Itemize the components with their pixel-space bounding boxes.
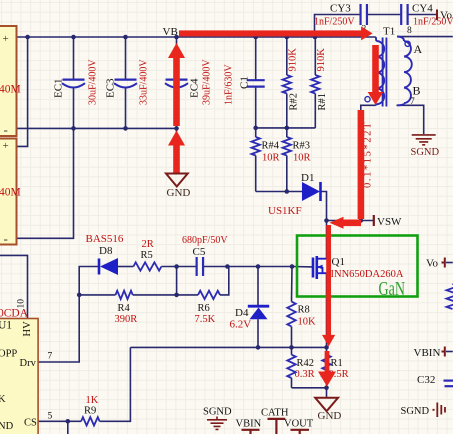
U1 pin HV name (22, 321, 33, 337)
wire Q1 source (326, 273, 328, 347)
svg-text:R9: R9 (84, 406, 96, 417)
U1 pin ND name (0, 421, 14, 432)
svg-text:VBIN: VBIN (414, 347, 441, 359)
svg-text:2R: 2R (142, 239, 154, 250)
svg-text:R#1: R#1 (317, 93, 328, 111)
bulk component box1 40M (0, 26, 21, 137)
resistor R1 0.5R (322, 355, 348, 380)
svg-text:D8: D8 (99, 245, 113, 257)
wire CS stub down (67, 421, 69, 434)
wire EC1 leads (73, 37, 75, 128)
wire EC4 leads (176, 37, 178, 128)
svg-text:39uF/400V: 39uF/400V (202, 59, 213, 105)
svg-text:1nF/250V: 1nF/250V (314, 17, 355, 28)
U1 part number text (0, 308, 29, 320)
svg-text:0.3R: 0.3R (295, 369, 315, 380)
resistor R5 2R (133, 239, 161, 271)
junction (315,37) (313, 35, 318, 40)
junction (176.6,294.9) (174, 293, 179, 298)
junction (326.5,387.8) (324, 386, 329, 391)
svg-text:R#3: R#3 (293, 141, 311, 152)
junction (176.5,37) (174, 35, 179, 40)
svg-text:ND: ND (0, 421, 14, 432)
wire GND stub right (326, 388, 328, 398)
junction (258,347.4) (256, 345, 261, 350)
svg-text:-: - (4, 122, 8, 137)
wire T1 pin4 down to VSW (361, 105, 376, 220)
wire R5C5 riser (176, 267, 178, 295)
resistor right edge partial (447, 284, 453, 309)
svg-text:T1: T1 (383, 26, 395, 38)
svg-text:1nF/630V: 1nF/630V (224, 64, 235, 105)
resistor R4 390R (115, 291, 138, 325)
svg-text:GND: GND (167, 187, 191, 199)
resistor R6 7.5K (195, 291, 221, 325)
junction (125.5,128.4) (123, 126, 128, 131)
svg-text:K: K (0, 394, 6, 405)
svg-text:VB: VB (163, 26, 178, 38)
junction (326.5,220.5) (324, 218, 329, 223)
wire R#1 leads (314, 37, 316, 128)
svg-text:SGND: SGND (401, 406, 430, 417)
wire D8 left column (79, 267, 99, 295)
wire D4 top lead (257, 267, 259, 306)
capacitor CY3 (314, 3, 367, 28)
svg-text:R6: R6 (198, 303, 210, 314)
svg-text:HV: HV (22, 321, 33, 337)
svg-text:680pF/50V: 680pF/50V (182, 235, 228, 246)
svg-text:US1KF: US1KF (268, 205, 302, 217)
transformer T1 (365, 26, 412, 107)
wire CY3-CY4 (368, 14, 400, 16)
wire R1 leads (326, 347, 328, 387)
junction (291.5,347.4) (289, 345, 294, 350)
red arrow down through R1 (318, 351, 336, 387)
wire VBIN stub right (446, 351, 453, 353)
U1 pin 5 number (48, 412, 53, 422)
wire D4 bottom lead (257, 319, 259, 347)
resistor R#3 10R (283, 137, 311, 164)
junction (27.6,37) (25, 35, 30, 40)
ground GND left (166, 174, 190, 200)
resistor R#4 10R (252, 137, 280, 164)
net port VSW (374, 215, 402, 228)
ground GND right (315, 398, 341, 422)
resistor R8 10K (287, 302, 316, 328)
wire R9 loop (38, 347, 130, 421)
svg-text:SGND: SGND (203, 407, 232, 418)
svg-text:OPP: OPP (0, 348, 17, 359)
svg-text:5: 5 (48, 412, 53, 422)
svg-text:BAS516: BAS516 (86, 233, 124, 245)
T1 pin 7 number (410, 97, 415, 107)
svg-text:-: - (4, 231, 8, 246)
resistor R#2 910K (283, 48, 300, 111)
svg-text:CY4: CY4 (412, 3, 433, 15)
net port Vo right (426, 258, 445, 270)
wire gate row (118, 266, 313, 268)
svg-text:910K: 910K (288, 48, 299, 72)
wire R#2 leads (286, 37, 288, 128)
svg-text:+: + (3, 140, 9, 152)
power port VOUT bottom (284, 419, 314, 434)
power port VBIN bottom (236, 419, 262, 434)
red arrow up to VB (168, 43, 185, 126)
red arrow along bus to T1 (179, 26, 373, 40)
net label VB (163, 26, 178, 38)
svg-text:390R: 390R (115, 314, 138, 325)
junction (255.7,37) (253, 35, 258, 40)
svg-text:D1: D1 (301, 172, 314, 184)
bulk component box2 40M (0, 139, 21, 247)
capacitor CY4 (401, 3, 453, 28)
junction (360.8,220.5) (359, 218, 364, 223)
svg-text:GaN: GaN (379, 278, 406, 300)
wire rail4 (130, 346, 326, 348)
svg-text:Vo: Vo (440, 10, 453, 22)
wire box2 plus to bus (16, 37, 28, 146)
zener diode D4 6.2V (230, 306, 270, 330)
svg-text:U1: U1 (0, 320, 12, 332)
net port VBIN right (414, 347, 445, 360)
svg-text:1K: 1K (86, 395, 99, 406)
svg-text:7.5K: 7.5K (195, 314, 216, 325)
svg-text:SGND: SGND (411, 147, 440, 158)
U1 pin K name (0, 394, 6, 405)
net port Vo top (437, 10, 453, 22)
resistor R9 1K (81, 395, 100, 426)
wire D1 cathode to VSW node (321, 192, 327, 221)
wire rail5 (292, 387, 327, 389)
wire bottom left rail (16, 127, 177, 129)
red arrow down to VSW turn (330, 110, 365, 229)
wire R8 leads (291, 267, 294, 348)
net port SGND right (401, 403, 446, 418)
junction (286.8,127.9) (285, 126, 290, 131)
svg-text:Q1: Q1 (332, 256, 345, 268)
junction (79.2,294.9) (77, 293, 82, 298)
svg-text:C5: C5 (193, 246, 206, 258)
svg-text:CY3: CY3 (330, 3, 351, 15)
wire box2 minus to rail (16, 128, 74, 238)
T1 pin 8 number (407, 26, 412, 36)
svg-text:R#4: R#4 (262, 141, 280, 152)
junction (176.6,266.5) (174, 264, 179, 269)
wire VSW rail (327, 220, 375, 222)
svg-text:40M: 40M (0, 187, 21, 199)
red arrow down through Q1 (322, 225, 335, 347)
T1 winding value 0.1*15*22T (363, 121, 374, 188)
svg-text:INN650DA260A: INN650DA260A (331, 269, 404, 280)
svg-text:10K: 10K (298, 317, 317, 328)
svg-text:B: B (413, 84, 421, 98)
svg-text:C1: C1 (239, 76, 251, 89)
svg-text:7: 7 (48, 352, 53, 362)
wire EC3 leads (125, 37, 127, 128)
svg-text:910K: 910K (316, 48, 327, 72)
T1 pin 3 number (362, 25, 367, 35)
transistor Q1 INN650DA260A (313, 256, 404, 280)
op-amp U1 controller box (0, 319, 38, 434)
U1 designator (0, 320, 12, 332)
svg-text:R42: R42 (297, 358, 315, 369)
wire GND stub left (176, 128, 178, 173)
junction (73.5,37) (71, 35, 76, 40)
junction (326.5,347.4) (324, 345, 329, 350)
junction (125.5,37) (123, 35, 128, 40)
wire T1 pin8 (397, 36, 453, 38)
junction (255.7,127.9) (253, 126, 258, 131)
junction (292,266.5) (290, 264, 295, 269)
svg-text:10R: 10R (262, 153, 280, 164)
diode D8 BAS516 (86, 233, 124, 275)
svg-text:33uF/400V: 33uF/400V (139, 59, 150, 105)
diode D1 US1KF (268, 172, 321, 217)
svg-text:C32: C32 (417, 374, 435, 386)
svg-text:Drv: Drv (20, 358, 37, 369)
U1 pin 7 number (48, 352, 53, 362)
svg-text:EC1: EC1 (53, 78, 65, 98)
capacitor C5 (182, 235, 228, 276)
capacitor C32 (417, 374, 453, 386)
svg-text:+: + (3, 33, 9, 45)
wire Q1 drain (326, 221, 328, 259)
junction (176.5,128.4) (174, 126, 179, 131)
svg-text:6.2V: 6.2V (230, 319, 252, 331)
wire R42 leads (291, 347, 293, 387)
junction (286.8,191.5) (285, 189, 290, 194)
svg-text:R5: R5 (141, 250, 153, 261)
wire Vo stub right (446, 262, 453, 264)
capacitor C1 (224, 64, 265, 105)
svg-text:VOUT: VOUT (284, 419, 314, 430)
svg-text:10R: 10R (293, 153, 311, 164)
wire R#4 leads (255, 128, 257, 192)
wire D8 col to Drv (38, 295, 79, 362)
power port CATH bottom (261, 408, 289, 434)
svg-text:R4: R4 (118, 303, 131, 314)
wire HV lead (0, 255, 28, 318)
junction (227.4,266.5) (225, 264, 230, 269)
svg-text:Vo: Vo (426, 258, 439, 270)
ground SGND under T1 (411, 135, 440, 158)
wire T1 pin7 to SGND (397, 105, 424, 134)
wire rail to D1 anode (256, 191, 302, 193)
capacitor EC1 (53, 59, 99, 105)
svg-text:40M: 40M (0, 84, 21, 96)
wire R#3 leads (286, 128, 288, 192)
wire rail C1-R#1 (256, 127, 316, 129)
wire top VB bus (16, 36, 376, 38)
svg-text:8: 8 (407, 26, 412, 36)
svg-text:GND: GND (318, 410, 342, 422)
svg-text:EC4: EC4 (189, 78, 201, 98)
svg-text:R1: R1 (331, 358, 343, 369)
svg-text:7: 7 (410, 97, 415, 107)
U1 pin Drv name (20, 358, 37, 369)
svg-text:D4: D4 (235, 307, 249, 319)
wire CY riser (315, 15, 360, 38)
svg-text:EC3: EC3 (105, 78, 117, 98)
svg-text:CS: CS (24, 418, 37, 429)
red arrow down primary (368, 45, 384, 105)
T1 node A label (414, 42, 423, 56)
U1 pin CS name (24, 418, 37, 429)
junction (67.8,421.3) (66, 419, 71, 424)
GaN highlight box (297, 236, 418, 301)
junction (258,266.5) (256, 264, 261, 269)
resistor R42 0.3R (287, 355, 314, 380)
resistor R#1 910K (311, 48, 328, 111)
wire R4 row (79, 267, 229, 295)
ground SGND bottom (203, 407, 232, 430)
capacitor EC4 (165, 59, 213, 105)
wire CY4 to Vo port (408, 14, 436, 16)
svg-text:10: 10 (17, 299, 27, 309)
capacitor EC3 (105, 59, 150, 105)
svg-text:A: A (414, 42, 423, 56)
svg-text:30uF/400V: 30uF/400V (88, 59, 99, 105)
svg-text:VSW: VSW (377, 216, 402, 228)
U1 pin 10 number (17, 299, 27, 309)
junction (73.5,128.4) (71, 126, 76, 131)
red arrow GND up to rail (168, 131, 185, 173)
svg-text:VBIN: VBIN (236, 419, 262, 430)
junction (286.8,37) (285, 35, 290, 40)
svg-text:R#2: R#2 (289, 93, 300, 111)
T1 node B label (413, 84, 421, 98)
U1 pin OPP name (0, 348, 17, 359)
wire C1 leads (255, 37, 257, 128)
svg-text:R8: R8 (298, 305, 310, 316)
svg-text:CATH: CATH (261, 408, 289, 419)
